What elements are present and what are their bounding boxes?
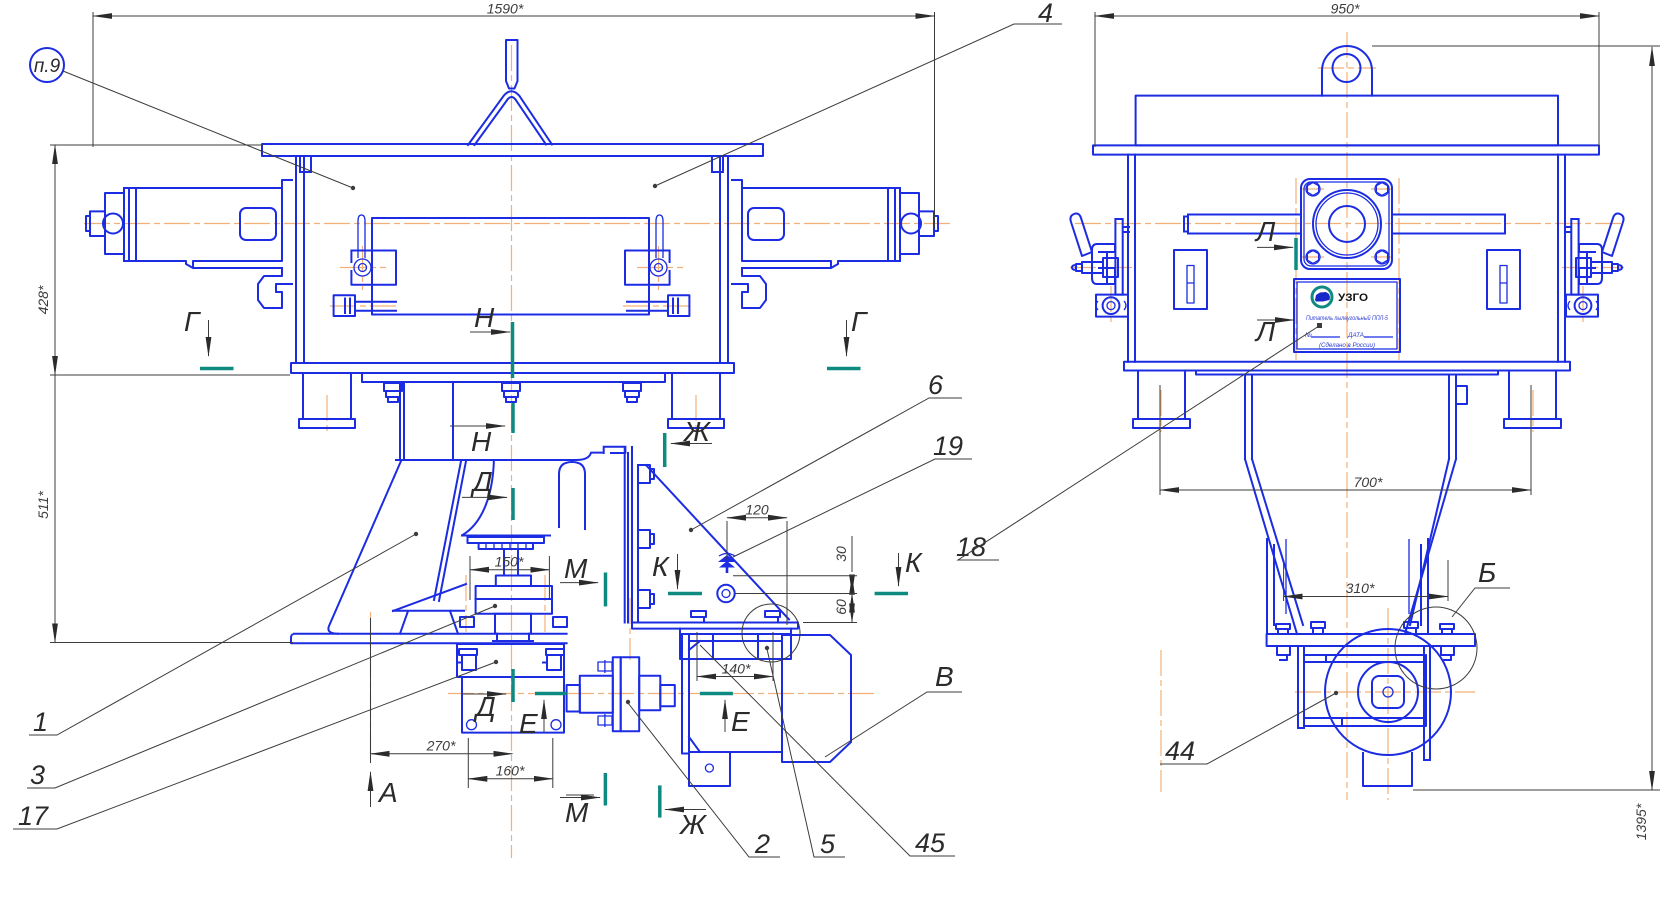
clamp body [1092, 244, 1115, 284]
detail circle B (left view) [742, 604, 800, 662]
dim 140 [697, 676, 773, 678]
funnel top edge [396, 453, 602, 460]
centerline: left clamp cross [340, 267, 386, 269]
dim 60 [851, 594, 853, 623]
dim 511 vertical line [54, 375, 56, 643]
dim 1590 line [93, 15, 935, 17]
section М top: arrow [560, 582, 598, 584]
svg-text:Питатель пылеугольный ППЛ-5: Питатель пылеугольный ППЛ-5 [1306, 314, 1388, 322]
section М bottom: overline [566, 794, 594, 796]
main box outer walls [296, 156, 728, 363]
dim 950 [1095, 15, 1599, 17]
motor shaft [660, 685, 675, 706]
centerline: right bolt assy [623, 305, 693, 307]
svg-text:44: 44 [1165, 736, 1195, 766]
dim 428 top reference [50, 144, 263, 146]
svg-text:Л: Л [1254, 216, 1276, 247]
callout B leader [825, 692, 962, 757]
svg-text:5: 5 [820, 829, 836, 859]
svg-text:К: К [905, 547, 923, 578]
section Е right: arrow [724, 700, 726, 732]
blower volute circle [1325, 629, 1451, 755]
section М top: teal mark [604, 573, 608, 607]
svg-text:150*: 150* [495, 554, 524, 570]
section Е left: arrow [543, 700, 545, 732]
clamp screw [1072, 262, 1103, 273]
svg-text:К: К [652, 551, 670, 582]
left clamp body [351, 251, 396, 285]
svg-text:М: М [565, 797, 589, 828]
svg-text:310*: 310* [1346, 580, 1375, 596]
centerline: right view clamp left cross [1070, 267, 1132, 269]
centerline: right view nameplate bolt lines [1295, 178, 1297, 360]
svg-text:18: 18 [956, 532, 986, 562]
section Л upper: teal mark [1294, 238, 1298, 270]
coupling bolts [598, 660, 612, 727]
centerline: left view vibrator bolts right [544, 575, 546, 632]
svg-text:2: 2 [754, 829, 770, 859]
section Г right: arrow [846, 320, 848, 356]
flange plate bolts top [1276, 624, 1454, 634]
svg-text:(Сделано в России): (Сделано в России) [1319, 341, 1375, 349]
bearing corner circles [467, 720, 477, 730]
centerline: right view right leg upper [1532, 390, 1534, 432]
wall step top [282, 180, 292, 188]
callout 1 leader [29, 534, 416, 735]
centerline: left view motors horizontal axis [84, 223, 950, 225]
left vibromotor [86, 180, 292, 308]
svg-text:Д: Д [470, 466, 493, 497]
centerline: left view funnel plate left bolt [370, 612, 372, 762]
svg-text:В: В [935, 661, 954, 692]
dim 150 [470, 569, 549, 571]
outlet flange plate [1267, 634, 1475, 646]
lid top plate [262, 144, 763, 156]
centerline: right view eye cross [1318, 67, 1376, 69]
washer bolt on gusset [717, 585, 734, 602]
blower hub square [1372, 676, 1404, 708]
dim 310 [1284, 596, 1448, 598]
callout 44 leader [1160, 693, 1336, 764]
dim 120 [727, 517, 787, 519]
svg-text:Ж: Ж [678, 809, 708, 840]
coupling right hub [639, 676, 660, 710]
dim 428 vertical line [54, 145, 56, 375]
bearing housing top band [457, 644, 564, 677]
funnel J-channel [559, 462, 585, 529]
callout Б leader [1452, 588, 1510, 617]
centerline: right view left leg upper [1160, 390, 1162, 432]
clamp jaw [1103, 252, 1118, 283]
nameplate logo circle [1312, 287, 1332, 307]
flange hex bolts [1306, 182, 1389, 264]
dim 700 [1160, 489, 1531, 491]
dim 428 bottom reference [50, 374, 290, 376]
gusset triangle [646, 465, 789, 620]
funnel top plate [1196, 371, 1498, 375]
svg-text:Д: Д [473, 691, 496, 722]
flange bolt left [384, 383, 402, 402]
centerline: right view left leg [1160, 650, 1162, 792]
vibrator shaft [504, 549, 518, 576]
centerline: right clamp cross [637, 267, 683, 269]
funnel neck left wall [400, 382, 453, 460]
dim 511 bottom reference [50, 642, 293, 644]
left slot plate [1174, 250, 1207, 309]
centerline: left bolt assy [330, 305, 400, 307]
section Ж bottom: arrow [665, 809, 706, 811]
clamp lever [1070, 214, 1092, 257]
bearing top bolts [459, 649, 564, 655]
svg-text:3: 3 [30, 760, 45, 790]
end circle [103, 214, 123, 234]
callout 45 leader [700, 645, 955, 856]
section Г left: teal mark [200, 367, 234, 371]
chute gusset right [1408, 539, 1410, 614]
centerline: left view left leg [326, 395, 328, 432]
callout 19 leader [733, 459, 972, 557]
section Ж top: teal mark [663, 433, 667, 467]
section Г left: arrow [208, 320, 210, 356]
centerline: left view vibrator bolts left [465, 575, 467, 632]
dim 160 [468, 778, 553, 780]
flange ring bolt ticks [486, 543, 526, 549]
right view right leg [1504, 371, 1561, 429]
brace outer diagonal with foot [328, 461, 401, 634]
right view left clamp [1070, 214, 1129, 317]
centerline: right view clamp right cross [1562, 267, 1624, 269]
nameplate inner border [1297, 282, 1397, 349]
flange bolt mid [502, 383, 520, 402]
section Л lower: arrow [1257, 319, 1294, 321]
funnel converging right wall curve [463, 460, 494, 535]
right clamp lever [656, 215, 663, 258]
right clamp body [625, 251, 670, 285]
section Н top: teal mark [511, 322, 515, 378]
svg-text:Ж: Ж [682, 416, 712, 447]
motor end block (beveled) [782, 635, 851, 762]
centerline: left view right leg [695, 395, 697, 432]
foundation blocks [680, 634, 791, 659]
svg-text:120: 120 [745, 502, 769, 518]
box bottom flange [1124, 362, 1570, 371]
flange nuts below [1277, 646, 1454, 660]
plate hex bolt 3 [638, 590, 654, 608]
blower hub circle [1358, 662, 1418, 722]
section Е left: teal mark [535, 692, 567, 696]
dim 1590 extension right [934, 12, 936, 228]
svg-text:Б: Б [1478, 557, 1496, 588]
right view right clamp (mirror) [1565, 214, 1624, 317]
inner window frame [372, 218, 649, 315]
detail circle B (right view) [1395, 607, 1477, 689]
end bolt [86, 211, 105, 236]
centerline: right view vertical axis [1346, 32, 1348, 800]
centerline: right view flange horizontal axis [1075, 223, 1622, 225]
lifting hook stem [506, 40, 518, 89]
left lower bolt assembly [334, 295, 396, 316]
callout 6 leader [691, 398, 962, 530]
left slot [1187, 266, 1194, 304]
coupling disc thin [613, 657, 621, 731]
svg-text:Г: Г [851, 306, 868, 337]
dim 1590 extension left [92, 12, 94, 147]
vibrator side bolts [460, 617, 567, 627]
vibrator flange block [476, 586, 552, 614]
column base ticks [493, 634, 533, 641]
svg-text:Е: Е [731, 706, 750, 737]
centerline: left view funnel plate right bolt [629, 598, 631, 660]
funnel cone inner right [1410, 459, 1449, 625]
funnel left wall lower curve [393, 584, 466, 611]
lid right tab [712, 156, 723, 172]
svg-text:А: А [377, 777, 398, 808]
right slot [1500, 266, 1507, 304]
section Е right: teal mark [700, 692, 733, 696]
flange outer circle [1313, 190, 1381, 258]
right leg [668, 373, 724, 428]
section Д top: teal mark [511, 488, 515, 520]
right view left leg [1133, 371, 1190, 429]
motor foot [689, 754, 730, 787]
left clamp circled bolt [354, 259, 371, 276]
callout 17 leader [13, 662, 496, 829]
motor end ring [124, 188, 136, 261]
flange bolt right [623, 383, 641, 402]
svg-text:Л: Л [1254, 316, 1276, 347]
svg-text:17: 17 [18, 801, 49, 831]
svg-text:45: 45 [915, 828, 946, 858]
clamp bracket plate [1115, 219, 1129, 295]
funnel cone inner left [1252, 459, 1303, 625]
brace foot trapezoids [400, 611, 458, 634]
svg-text:950*: 950* [1331, 1, 1360, 17]
dim 30 [851, 576, 853, 594]
centerline: left view gearbox/motor horizontal axis [448, 693, 875, 695]
section Д top: arrow [462, 496, 507, 498]
motor body [136, 188, 282, 268]
svg-text:6: 6 [928, 370, 944, 400]
funnel right bevel step [1456, 386, 1467, 404]
funnel upper straight walls [1245, 375, 1456, 460]
blower outlet [1363, 753, 1412, 786]
coupling left hub [580, 676, 613, 713]
svg-text:Н: Н [474, 302, 495, 333]
section Н mid: arrow [450, 425, 505, 427]
svg-text:1395*: 1395* [1633, 803, 1649, 840]
spray nozzle arrow [718, 555, 736, 573]
section Ж bottom: teal mark [658, 785, 662, 817]
callout p.9 circle [30, 48, 64, 82]
section К right: arrow [898, 553, 900, 586]
svg-text:Н: Н [471, 426, 492, 457]
view А: arrow [370, 772, 372, 807]
base plate bolts [691, 611, 780, 623]
svg-text:Е: Е [519, 708, 538, 739]
plate hex bolt 2 [638, 530, 654, 548]
svg-text:ДАТА: ДАТА [1347, 332, 1364, 339]
terminal box [240, 208, 276, 240]
centerline: flange bolt crosses [1302, 188, 1324, 190]
vertical angle plate [625, 447, 638, 623]
section К left: teal mark [668, 592, 702, 596]
svg-text:700*: 700* [1354, 474, 1383, 490]
section М bottom: arrow [560, 797, 600, 799]
centerline: right view blower vertical axis [1387, 608, 1389, 800]
funnel cone outer right [1405, 459, 1456, 634]
svg-text:Г: Г [184, 306, 201, 337]
horizontal bar through flange [1184, 215, 1505, 234]
motor foot hole [705, 764, 713, 772]
svg-text:160*: 160* [496, 763, 525, 779]
mounting bracket [258, 268, 292, 308]
bearing housing body [462, 677, 564, 733]
lifting eye hole [1333, 54, 1361, 82]
lower bracket eye [1103, 297, 1120, 314]
svg-text:1590*: 1590* [487, 1, 524, 17]
gear housing inner lines [1304, 655, 1426, 726]
callout 18 leader [958, 326, 1319, 560]
lid flange plate [1093, 145, 1599, 154]
central pipe flange square [1301, 179, 1392, 269]
svg-text:60: 60 [833, 599, 849, 615]
lifting eye [1322, 46, 1372, 96]
section Н mid: teal mark [511, 403, 515, 433]
motor body [689, 641, 782, 752]
right clamp circled bolt [650, 259, 667, 276]
main box inner wall lines [304, 156, 720, 363]
top bolts on blower frame [1311, 622, 1418, 634]
lid left tab [300, 156, 311, 172]
svg-text:270*: 270* [426, 738, 456, 754]
section Г right: teal mark [827, 367, 861, 371]
right slot plate [1487, 250, 1520, 309]
lifting hook V-sling [468, 91, 552, 145]
right lower bolt assembly [627, 295, 689, 316]
nameplate outer [1294, 279, 1400, 352]
left leg [299, 373, 355, 428]
svg-text:М: М [564, 553, 588, 584]
dim 270 [371, 753, 513, 755]
chute gusset left [1285, 539, 1287, 614]
motor end cap [105, 193, 124, 254]
dim 1395 [1651, 47, 1653, 790]
blower gear housing (occludes circle) [1304, 655, 1426, 726]
vibrator flange block inner line [476, 598, 552, 600]
callout 5 leader [767, 649, 845, 857]
section Д bottom: teal mark [511, 669, 515, 702]
left clamp lever [358, 215, 365, 258]
lid box [1136, 96, 1558, 146]
callout 4 leader [655, 24, 1062, 186]
section М bottom: teal mark [604, 773, 608, 806]
svg-text:428*: 428* [35, 285, 51, 314]
section К right: teal mark [875, 592, 908, 596]
lower bracket [1096, 295, 1128, 317]
angle plate top hook [604, 447, 626, 453]
centerline: right view blower horizontal axis [1295, 691, 1475, 693]
brace bottom horizontal [393, 610, 464, 612]
vibrator flange ring stack [462, 536, 550, 550]
vibrator upper block [496, 576, 531, 587]
box walls [1128, 155, 1565, 362]
funnel chute right wall [1421, 539, 1428, 634]
coupling disc wide [621, 657, 640, 731]
output shaft left stub [567, 685, 580, 712]
funnel cone outer left [1245, 459, 1297, 634]
callout p.9 leader [63, 71, 353, 188]
right vibromotor (mirror) [732, 180, 938, 308]
svg-text:п.9: п.9 [34, 56, 61, 77]
svg-text:511*: 511* [35, 491, 51, 519]
svg-text:140*: 140* [722, 661, 751, 677]
section Д bottom: arrow [461, 693, 506, 695]
flange bore [1329, 206, 1365, 242]
bearing hex bolt left [458, 655, 476, 670]
section Н top: arrow [470, 331, 510, 333]
nameplate logo truck [1315, 292, 1330, 302]
svg-text:30: 30 [833, 546, 849, 562]
bearing hex bolt right [543, 655, 561, 670]
funnel chute left wall [1267, 539, 1274, 634]
blower hub hole [1383, 687, 1393, 697]
vibrator lower column [495, 614, 531, 634]
section Л upper: arrow [1257, 246, 1293, 248]
motor flange [682, 634, 689, 754]
svg-text:1: 1 [33, 707, 48, 737]
brace right edge pair [434, 461, 466, 601]
base plate right [632, 623, 798, 629]
base plate [291, 634, 567, 644]
section К left: arrow [677, 554, 679, 589]
funnel top plate under flange [362, 373, 665, 382]
motor bell lines [689, 641, 700, 752]
base lower plate [680, 629, 791, 634]
blower hanger plates [1298, 646, 1430, 760]
centerline: left view vertical axis [511, 45, 513, 858]
section Ж top: arrow [671, 443, 712, 445]
callout 2 leader [628, 703, 780, 857]
box bottom flange [291, 363, 734, 373]
callout 3 leader [27, 606, 495, 788]
plate hex bolt 1 [638, 465, 654, 483]
svg-text:УЗГО: УЗГО [1338, 292, 1368, 304]
svg-text:19: 19 [933, 431, 963, 461]
